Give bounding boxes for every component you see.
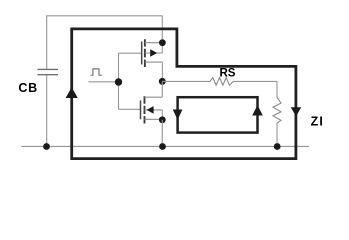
junction dot gate node: [115, 78, 122, 85]
wire below capacitor: [46, 75, 48, 146]
capacitor CB: [38, 69, 59, 74]
wire upper MOSFET to mid node: [161, 62, 163, 81]
resistor ZI: [273, 97, 281, 123]
wire lower source to bottom: [161, 120, 163, 147]
wire gate vertical: [118, 53, 120, 109]
svg-text:ZI: ZI: [311, 114, 324, 128]
junction dot CB bottom: [43, 143, 50, 150]
current arrow down on right edge: [291, 107, 301, 116]
transistor Q2 lower MOSFET: [141, 96, 163, 123]
junction dot mid node: [159, 78, 166, 85]
wire left vertical to capacitor: [46, 15, 48, 69]
current arrow up on left edge: [66, 87, 78, 98]
junction dot lower source node: [159, 116, 166, 123]
junction dot lower source bottom: [159, 143, 166, 150]
wire lower body to source: [161, 110, 163, 120]
wire top horizontal: [47, 15, 163, 17]
wire gate to upper MOSFET: [119, 52, 142, 54]
wire ZI bottom lead: [276, 123, 278, 146]
svg-text:RS: RS: [220, 67, 236, 79]
pulse source symbol: [91, 69, 102, 75]
svg-text:CB: CB: [18, 81, 37, 95]
wire bottom horizontal: [21, 145, 309, 147]
transistor Q1 upper MOSFET: [142, 39, 163, 67]
wire gate to lower MOSFET: [119, 108, 141, 110]
bold current loop outer: [72, 29, 296, 159]
wire ZI top lead: [276, 81, 278, 97]
wire mid node to RS: [162, 80, 210, 82]
wire gate feed: [88, 81, 118, 83]
wire RS to ZI: [233, 80, 277, 82]
bold current loop inner box: [178, 97, 258, 132]
junction dot ZI bottom: [274, 143, 281, 150]
current arrow up on inner right edge: [252, 105, 263, 115]
wire drain rail of upper MOSFET: [161, 16, 163, 53]
resistor RS: [210, 78, 233, 86]
wire mid node to lower MOSFET drain: [161, 81, 163, 97]
current arrow down on inner left edge: [173, 110, 183, 121]
junction dot upper source node: [159, 39, 166, 46]
